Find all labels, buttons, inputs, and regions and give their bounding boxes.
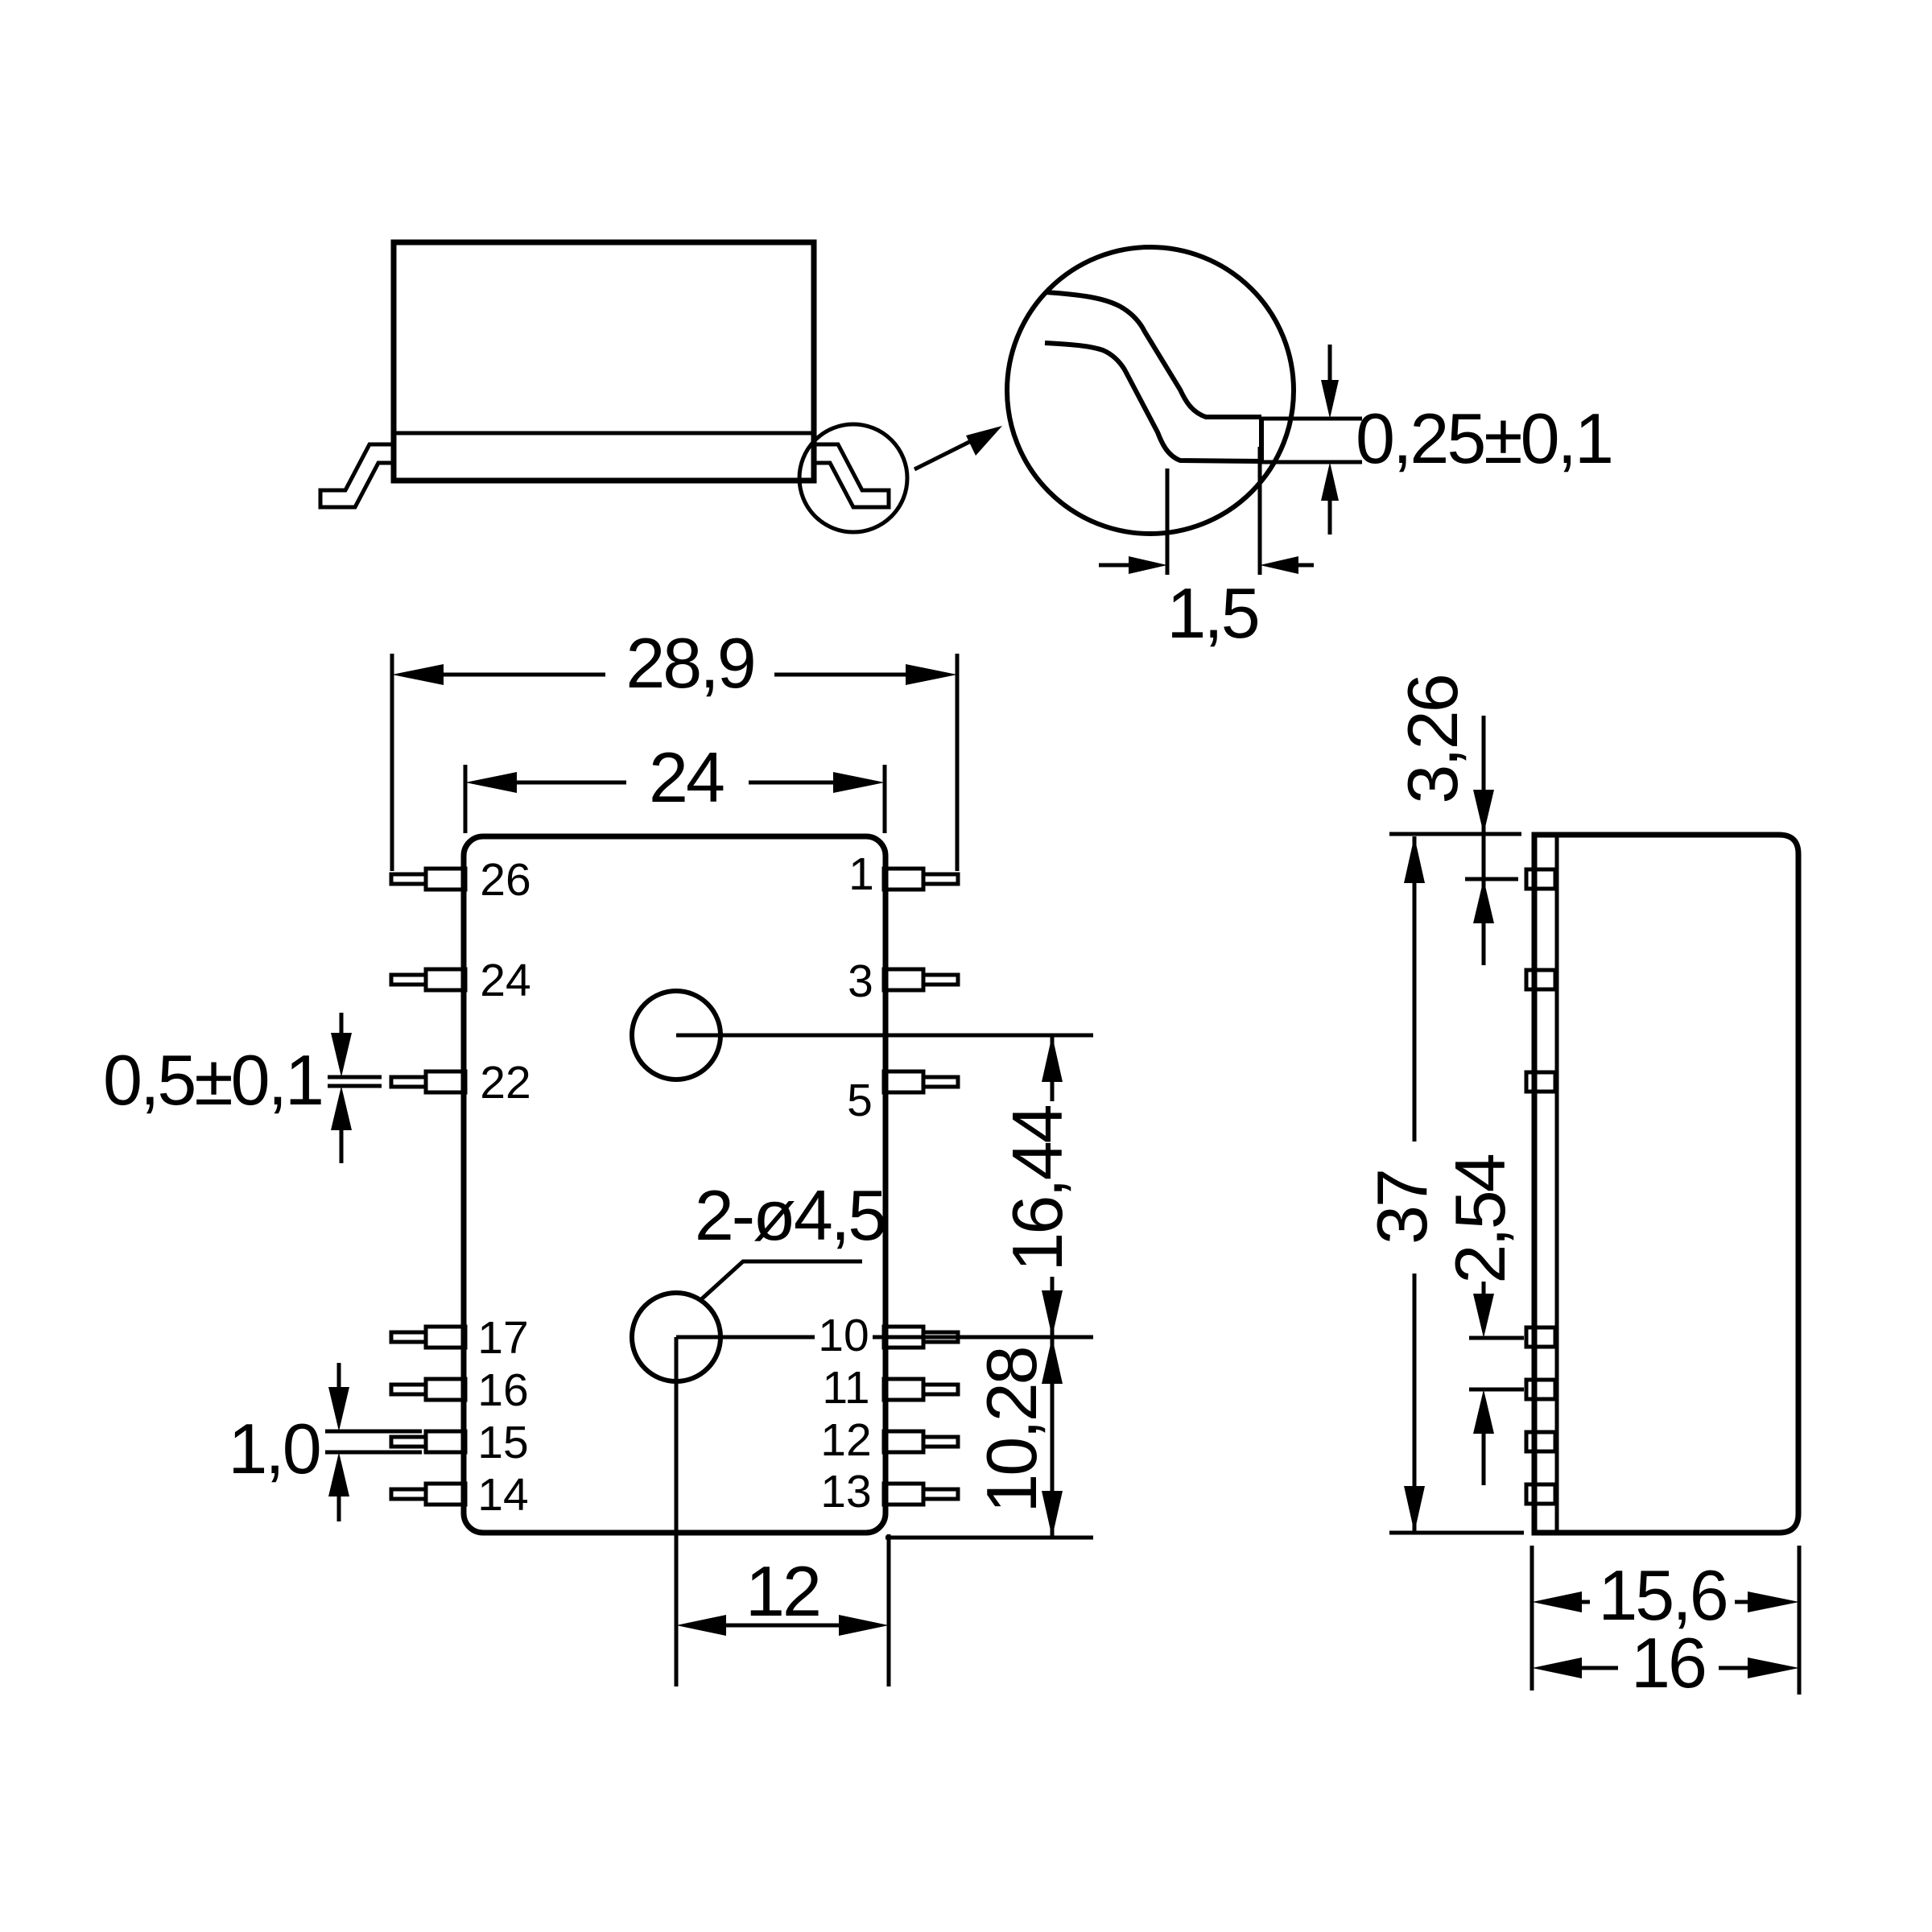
svg-text:24: 24	[480, 955, 530, 1006]
svg-text:2,54: 2,54	[1440, 1154, 1520, 1283]
side pin 1	[1526, 869, 1555, 889]
svg-text:12: 12	[820, 1414, 871, 1466]
svg-text:3,26: 3,26	[1393, 675, 1472, 803]
svg-text:5: 5	[847, 1075, 873, 1126]
magnified lead end cap	[1259, 419, 1264, 462]
svg-text:16,44: 16,44	[997, 1105, 1077, 1271]
dimension 24	[464, 765, 468, 833]
dimension 3,26	[1389, 832, 1521, 836]
svg-text:17: 17	[477, 1312, 528, 1364]
left gull-wing lead	[320, 444, 394, 507]
pin 11	[884, 1379, 958, 1400]
pin 22	[391, 1071, 465, 1092]
right gull-wing lead	[814, 444, 889, 507]
dimension 1,0	[325, 1430, 422, 1434]
pin 14	[391, 1484, 465, 1505]
svg-text:15: 15	[477, 1417, 528, 1468]
pin 1	[884, 869, 958, 890]
svg-text:1: 1	[848, 848, 874, 900]
svg-text:1,5: 1,5	[1166, 573, 1257, 653]
dimension 12	[887, 1534, 891, 1686]
dimension 16	[1571, 1666, 1618, 1670]
detail circle (magnified)	[1007, 247, 1294, 534]
side pin 10	[1526, 1327, 1555, 1347]
side pin 13	[1526, 1484, 1555, 1504]
dimension 0,5±0,1	[328, 1075, 382, 1080]
dimension 1,5 arrows	[1099, 563, 1129, 568]
detail marker circle	[799, 424, 907, 532]
svg-text:22: 22	[480, 1057, 530, 1108]
svg-text:12: 12	[745, 1551, 819, 1631]
body outline side elevation	[394, 242, 814, 481]
svg-text:11: 11	[822, 1362, 869, 1414]
pin 5	[884, 1071, 958, 1092]
pin 24	[391, 969, 465, 990]
dimension 28,9	[390, 654, 394, 871]
svg-text:24: 24	[649, 737, 724, 817]
magnified lead upper edge	[1046, 292, 1261, 417]
svg-text:10: 10	[818, 1310, 869, 1361]
svg-text:16: 16	[477, 1364, 528, 1416]
body seam line	[394, 431, 814, 436]
pin 15	[391, 1431, 465, 1452]
svg-text:37: 37	[1362, 1170, 1442, 1245]
svg-text:26: 26	[480, 854, 530, 906]
pin 3	[884, 969, 958, 990]
side pin 5	[1526, 1072, 1555, 1092]
svg-text:3: 3	[848, 956, 873, 1007]
pin 16	[391, 1379, 465, 1400]
bottom edge extension for 10,28	[885, 1536, 1093, 1540]
svg-text:0,25±0,1: 0,25±0,1	[1356, 398, 1612, 478]
svg-text:14: 14	[477, 1469, 528, 1521]
svg-text:0,5±0,1: 0,5±0,1	[103, 1040, 322, 1120]
side pin 3	[1526, 970, 1555, 989]
dimension 16,44	[1051, 1035, 1055, 1337]
side pin 12	[1526, 1432, 1555, 1451]
side view body	[1534, 835, 1798, 1533]
front view body	[464, 836, 885, 1533]
dimension 15,6	[1571, 1600, 1590, 1604]
dimension 0,25±0,1 extension lines	[1261, 417, 1362, 421]
label 16,44	[1010, 1101, 1065, 1277]
svg-text:13: 13	[820, 1466, 871, 1517]
pin 10	[884, 1327, 958, 1348]
dimension 2,54	[1469, 1336, 1524, 1340]
pin 13	[884, 1484, 958, 1505]
hole bottom center line	[676, 1335, 1093, 1340]
svg-text:28,9: 28,9	[625, 623, 753, 703]
svg-text:10,28: 10,28	[972, 1348, 1051, 1513]
pin 26	[391, 869, 465, 890]
svg-text:1,0: 1,0	[228, 1409, 319, 1488]
svg-text:2-ø4,5: 2-ø4,5	[695, 1175, 885, 1255]
mounting hole bottom	[632, 1293, 720, 1381]
side view flange line	[1555, 835, 1559, 1533]
leader 2-ø4,5	[700, 1261, 862, 1301]
hole top center line	[676, 1034, 1093, 1038]
magnified lead lower edge	[1045, 343, 1261, 461]
dimension 0,25±0,1 arrows	[1328, 345, 1332, 380]
side pin 11	[1526, 1380, 1555, 1399]
dimension 15,6 / 16 extension lines	[1530, 1546, 1534, 1690]
dimension 1,5 extension lines	[1166, 469, 1170, 575]
hole bottom vertical extension	[675, 1337, 679, 1686]
pin number 10	[815, 1314, 873, 1357]
svg-text:16: 16	[1631, 1623, 1705, 1703]
dimension 10,28	[1051, 1337, 1055, 1538]
dimension 37	[1389, 1531, 1524, 1535]
leader arrow to detail	[914, 431, 990, 469]
mounting hole top	[632, 991, 720, 1080]
pin 17	[391, 1327, 465, 1348]
pin 12	[884, 1431, 958, 1452]
